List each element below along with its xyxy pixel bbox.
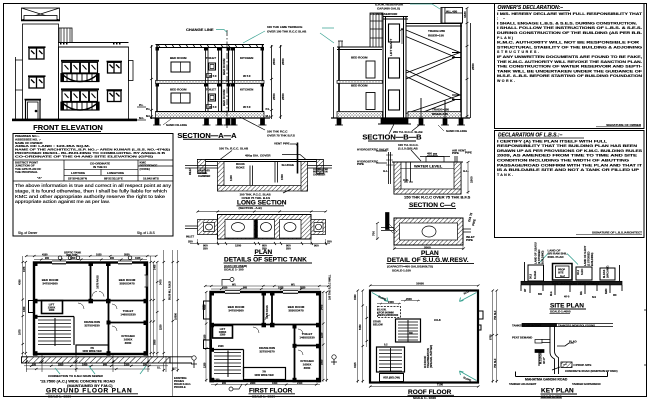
svg-text:BED ROOM: BED ROOM <box>351 84 368 88</box>
svg-text:2950: 2950 <box>58 363 64 366</box>
svg-text:CHAMBER: CHAMBER <box>198 175 210 178</box>
svg-text:CO-ORDINATE OF THE 04 AND SITE: CO-ORDINATE OF THE 04 AND SITE ELEVATION… <box>15 154 153 158</box>
sugw right outlet <box>463 229 471 232</box>
stair chevron upper <box>406 30 460 79</box>
svg-text:IF ANY UNWRITTEN DOCUMENTS ARE: IF ANY UNWRITTEN DOCUMENTS ARE FOUND TO … <box>497 55 642 59</box>
key plan top road band <box>522 324 557 327</box>
svg-text:2000: 2000 <box>424 246 431 250</box>
svg-text:PIPE: PIPE <box>466 238 473 242</box>
svg-text:40': 40' <box>524 288 527 292</box>
svg-text:HYDROSTATIC VALVE: HYDROSTATIC VALVE <box>357 148 389 152</box>
label LONG SECTION <box>237 200 287 211</box>
svg-text:250: 250 <box>286 247 291 251</box>
RF texts <box>354 282 497 387</box>
long section right outlet chamber wall <box>317 160 324 174</box>
svg-text:LAND OF S.ROY: LAND OF S.ROY <box>583 245 587 266</box>
svg-text:stage, it is found otherwise,: stage, it is found otherwise, then I sha… <box>15 188 168 193</box>
key plan side lane <box>542 340 551 343</box>
chains crossing road <box>27 355 167 372</box>
svg-text:2000: 2000 <box>406 297 412 301</box>
svg-text:40.2: 40.2 <box>576 269 580 275</box>
leader 150 slab <box>389 123 422 134</box>
tower window 1 <box>28 47 46 59</box>
svg-text:2000. PLAN: 2000. PLAN <box>548 255 564 259</box>
svg-text:88°21'33.15"E: 88°21'33.15"E <box>104 177 123 181</box>
svg-text:BED ROOM: BED ROOM <box>222 58 226 75</box>
svg-text:30.5: 30.5 <box>529 273 533 279</box>
svg-text:SLUDGE: SLUDGE <box>282 163 295 167</box>
right plinth hatch <box>408 112 461 119</box>
label PLAN septic <box>254 249 273 256</box>
septic plan top dim line <box>198 211 326 213</box>
GF window marks on outer walls <box>52 260 132 263</box>
svg-text:58.7: 58.7 <box>172 369 177 371</box>
svg-text:750 SLF: 750 SLF <box>494 358 497 368</box>
long section tank left wall <box>218 162 225 192</box>
C-C tank walls <box>394 162 461 194</box>
RF right wall tabs <box>478 311 483 319</box>
right dimension lines <box>272 45 281 119</box>
svg-text:5450: 5450 <box>359 324 362 330</box>
label KEY PLAN <box>541 388 578 399</box>
left dim line <box>151 45 153 119</box>
svg-text:700: 700 <box>372 231 376 236</box>
FF extra dim numbers <box>203 287 323 385</box>
right pilaster <box>129 61 134 81</box>
floor2 window band <box>61 89 99 110</box>
key plan prop site rect <box>561 362 572 368</box>
svg-text:900: 900 <box>243 287 248 290</box>
svg-text:TANKERS ADJACENT: TANKERS ADJACENT <box>512 323 542 327</box>
signature of owner <box>596 123 642 127</box>
FF left dim chain <box>205 292 207 382</box>
svg-text:2550: 2550 <box>281 58 285 65</box>
svg-text:1025: 1025 <box>96 254 102 257</box>
section A-A top slab <box>156 45 265 48</box>
lift doors dark <box>389 58 400 78</box>
svg-text:1500: 1500 <box>470 176 474 183</box>
key plan texts <box>509 323 618 386</box>
svg-text:TOILET: TOILET <box>206 56 217 60</box>
label SECTION-A-A <box>177 131 237 140</box>
svg-text:N.S: N.S <box>592 296 596 299</box>
FF door arcs <box>253 315 303 355</box>
svg-text:TANK WILL BE UNDERTAKEN UNDER: TANK WILL BE UNDERTAKEN UNDER THE GUIDAN… <box>497 69 643 73</box>
left doors <box>366 61 375 78</box>
leader vent pipe text <box>290 144 298 147</box>
svg-text:4150: 4150 <box>42 254 48 257</box>
RF ver below box <box>380 374 404 382</box>
site road band <box>521 281 622 285</box>
svg-text:SCALE 1:- 1/100: SCALE 1:- 1/100 <box>48 395 71 399</box>
svg-text:PEAT DEMAND: PEAT DEMAND <box>512 336 532 340</box>
svg-text:THE PROPOSAL: THE PROPOSAL <box>15 170 38 174</box>
svg-text:O.K.: O.K. <box>403 178 409 182</box>
long section tank bottom <box>218 186 308 192</box>
svg-text:O.H.W.RESERVOIR: O.H.W.RESERVOIR <box>370 12 398 16</box>
svg-text:PIPE: PIPE <box>465 151 472 155</box>
tower parapet band <box>24 16 57 21</box>
svg-text:SCALE 1:- 1/100: SCALE 1:- 1/100 <box>252 395 275 399</box>
svg-text:S.RO: S.RO <box>580 269 584 275</box>
svg-text:M.DAS: M.DAS <box>602 269 606 278</box>
svg-text:3500: 3500 <box>154 339 157 345</box>
svg-text:3530X3475: 3530X3475 <box>288 309 304 313</box>
L.B.S. declaration title <box>498 133 584 139</box>
outlet pipe right <box>308 166 333 169</box>
C-C air vent <box>455 156 457 162</box>
RF slope arrows top-right <box>460 293 477 302</box>
RF ghw reservoir dashed box <box>378 307 401 318</box>
svg-text:DN: DN <box>409 332 413 335</box>
B-B left parapet <box>338 41 343 47</box>
svg-text:SITE PLAN: SITE PLAN <box>550 303 584 310</box>
label SECTION-B-B <box>362 133 422 142</box>
key plan black block <box>535 350 544 353</box>
FF column blobs <box>210 291 321 382</box>
svg-text:W.T.F: W.T.F <box>243 105 251 109</box>
first floor plan <box>203 242 648 400</box>
tower parapet X box <box>22 8 60 20</box>
GF left balcony <box>29 301 34 313</box>
key plan leader from prop site <box>552 365 576 370</box>
svg-text:RISER=150: RISER=150 <box>428 34 444 38</box>
svg-text:WATER LEVEL: WATER LEVEL <box>414 164 443 169</box>
parapet vent marks <box>60 43 121 45</box>
svg-text:KMC: KMC <box>605 288 608 294</box>
svg-text:"A": "A" <box>37 176 42 180</box>
GF kerb dim row <box>24 366 168 369</box>
B-B right wall <box>460 24 462 119</box>
svg-text:TRADE=250: TRADE=250 <box>432 108 449 112</box>
svg-text:BELOW: BELOW <box>373 323 383 327</box>
site prop site box <box>553 264 573 281</box>
leader pcc bottom <box>283 189 291 193</box>
svg-text:1075 PASS: 1075 PASS <box>96 275 100 289</box>
RF bottom dim <box>370 386 478 388</box>
svg-text:(CODE): (CODE) <box>140 167 150 171</box>
floor1 window band <box>61 61 99 82</box>
svg-text:COVER: COVER <box>427 154 439 158</box>
window lower bedroom <box>171 93 190 103</box>
svg-text:TAPE UNATUACHA DEVELOPMENT: TAPE UNATUACHA DEVELOPMENT <box>552 281 600 285</box>
svg-text:PIPE: PIPE <box>357 162 364 166</box>
key plan vertical road <box>550 327 559 375</box>
septic plan dim numbers <box>186 235 332 251</box>
RF outer walls <box>370 291 478 383</box>
svg-text:I CERTIFY (A) THE PLAN ITSELF: I CERTIFY (A) THE PLAN ITSELF WITH FULL <box>497 139 608 143</box>
svg-text:Sig. of L.B.S: Sig. of L.B.S <box>137 231 155 235</box>
signature of L.B.S. <box>576 231 642 235</box>
left boundary wall lines <box>15 57 23 120</box>
svg-text:M.L: M.L <box>266 114 271 118</box>
room labels section A-A <box>146 56 271 118</box>
svg-text:PIPE: PIPE <box>452 151 459 155</box>
svg-text:I SHALL FOLLOW THE INSTRUCTION: I SHALL FOLLOW THE INSTRUCTIONS OF L.B.S… <box>497 26 642 30</box>
svg-text:900: 900 <box>314 244 319 248</box>
svg-text:(VACANT): (VACANT) <box>606 266 610 278</box>
toilet door lower marks <box>207 74 212 78</box>
svg-text:RESPONSIBILITY THAT THE BUILDI: RESPONSIBILITY THAT THE BUILDING PLAN HA… <box>497 144 638 148</box>
svg-text:(SPECIAL BATTEN): (SPECIAL BATTEN) <box>430 345 433 368</box>
arrow in shaft <box>401 28 404 44</box>
svg-text:250: 250 <box>203 247 208 251</box>
FF toilet bottom wall <box>295 345 320 347</box>
L.B.S. declaration body text <box>497 139 643 177</box>
svg-text:22°30'45.36"N: 22°30'45.36"N <box>68 177 87 181</box>
label ROOF FLOOR <box>408 389 455 396</box>
septic plan <box>185 211 330 246</box>
svg-text:SCALE-1:100: SCALE-1:100 <box>392 268 411 272</box>
svg-text:P.L: P.L <box>266 107 270 111</box>
svg-text:RISER=150: RISER=150 <box>432 112 448 116</box>
sugw bottom dim <box>394 248 463 250</box>
landing lower <box>452 95 461 100</box>
left dim line <box>333 47 335 118</box>
svg-text:PLAD: PLAD <box>569 340 577 344</box>
roof stair bulkhead with hatch <box>59 28 72 43</box>
svg-text:BED ROOM: BED ROOM <box>351 56 368 60</box>
GF right dim chains <box>151 250 178 396</box>
shaft top slab <box>381 17 408 20</box>
svg-text:900: 900 <box>103 363 108 366</box>
lamp post <box>192 356 196 360</box>
svg-text:250: 250 <box>327 240 332 244</box>
svg-text:IN THE 04: IN THE 04 <box>93 165 107 169</box>
FF bottom dim <box>211 384 320 386</box>
svg-text:4360: 4360 <box>19 279 22 285</box>
svg-text:3500: 3500 <box>125 341 132 345</box>
stair posts <box>421 98 445 118</box>
GF veranda <box>76 345 109 354</box>
svg-text:LATITUDE: LATITUDE <box>71 171 85 175</box>
svg-text:1075 PASS: 1075 PASS <box>265 305 269 319</box>
septic plan left chamber <box>198 220 218 235</box>
svg-text:PASSAGE/ROAD CONFIRM WITH TH: PASSAGE/ROAD CONFIRM WITH THE PLAN AND T… <box>497 163 643 167</box>
svg-text:RD: RD <box>613 294 617 297</box>
leader for lime terrace note <box>243 28 334 43</box>
svg-text:M.L: M.L <box>146 114 151 118</box>
svg-text:K.M.C. AUTHORITY WILL NOT BE R: K.M.C. AUTHORITY WILL NOT BE RESPONSIBLE… <box>497 41 640 45</box>
svg-text:4150: 4150 <box>222 287 228 290</box>
svg-text:G.L.: G.L. <box>383 169 389 173</box>
septic plan cell 3 <box>280 220 302 239</box>
svg-text:I SHALL ENGAGE L.B.S. & S.E.S.: I SHALL ENGAGE L.B.S. & S.E.S. DURING CO… <box>497 21 637 25</box>
svg-text:OVER 75 THK B.F.S: OVER 75 THK B.F.S <box>267 134 295 138</box>
FF right lamp symbol <box>332 355 336 359</box>
svg-text:250: 250 <box>32 363 37 366</box>
label DETAILS OF SEPTIC TANK <box>224 257 313 272</box>
GF room texts <box>19 251 178 354</box>
B-B mid slab left <box>337 81 383 84</box>
svg-text:KITCHEN: KITCHEN <box>240 88 253 92</box>
floor2 small window <box>107 90 123 102</box>
svg-text:3475: 3475 <box>160 279 163 285</box>
inlet pipe left <box>185 166 218 169</box>
site plan <box>521 254 622 296</box>
left dim 700 <box>376 223 378 240</box>
svg-text:The above information is true: The above information is true and correc… <box>15 183 172 188</box>
svg-text:9750: 9750 <box>490 334 493 340</box>
FF window gaps top <box>225 289 298 292</box>
svg-text:3530: 3530 <box>124 254 130 257</box>
svg-text:2009, AS AMENDED FROM TIME TO: 2009, AS AMENDED FROM TIME TO TIME AND S… <box>497 154 638 158</box>
svg-text:7/9: 7/9 <box>262 370 266 374</box>
svg-text:M.L: M.L <box>139 116 144 120</box>
svg-text:SCALE-1:4000: SCALE-1:4000 <box>550 310 571 314</box>
svg-text:3475: 3475 <box>23 266 26 272</box>
svg-text:3475X4360: 3475X4360 <box>42 282 58 286</box>
reservoir box top right <box>441 8 463 24</box>
svg-text:(2 STORIED: (2 STORIED <box>587 251 591 266</box>
section A-A <box>150 28 334 130</box>
svg-text:W.T.F: W.T.F <box>209 74 217 78</box>
svg-text:OVER 100 THK R.C.C SLAB: OVER 100 THK R.C.C SLAB <box>267 30 307 34</box>
sugw plan body <box>394 218 463 245</box>
shaft pit bottom <box>381 118 408 124</box>
svg-text:SAND FILLING: SAND FILLING <box>166 123 188 127</box>
svg-text:1200: 1200 <box>235 244 242 248</box>
right dim line <box>467 8 471 118</box>
svg-text:G+2: G+2 <box>560 275 565 278</box>
svg-text:1200: 1200 <box>70 257 76 260</box>
GF room divider right col <box>108 302 110 354</box>
FF room texts <box>203 274 332 381</box>
svg-text:VER.(BELOW): VER.(BELOW) <box>383 377 400 380</box>
svg-text:STRUCTURAL STABILITY OF THE BU: STRUCTURAL STABILITY OF THE BUILDING & A… <box>497 45 642 49</box>
svg-text:PROFILE: PROFILE <box>174 385 186 389</box>
svg-text:I M/S. HEREBY DECLARE WITH FUL: I M/S. HEREBY DECLARE WITH FULL RESPONSI… <box>497 12 643 16</box>
FF balconies left <box>204 301 211 319</box>
section A-A beam blobs <box>156 48 265 87</box>
roof floor plan <box>357 285 499 388</box>
change line (chain) <box>226 30 228 130</box>
GF lift box <box>42 301 63 314</box>
svg-text:3530X3475: 3530X3475 <box>119 282 135 286</box>
RF right dim chains <box>493 291 497 384</box>
svg-text:3475X4360: 3475X4360 <box>228 309 244 313</box>
svg-text:2100: 2100 <box>218 345 224 348</box>
septic plan main hatched body <box>218 215 312 240</box>
svg-text:4415: 4415 <box>354 362 357 368</box>
svg-text:0.2: 0.2 <box>384 344 388 347</box>
svg-text:1025: 1025 <box>135 257 141 260</box>
svg-text:3275X4330: 3275X4330 <box>84 324 100 328</box>
footings <box>155 118 265 125</box>
svg-text:G.L: G.L <box>157 368 161 370</box>
svg-text:250 TH. R.C.C. SLAB: 250 TH. R.C.C. SLAB <box>393 130 423 134</box>
shaft machine room stack left <box>370 13 383 47</box>
right dim C-C <box>467 162 469 194</box>
septic plan inlet line <box>185 226 198 229</box>
svg-text:W1: W1 <box>232 284 236 287</box>
svg-text:2550: 2550 <box>471 63 475 70</box>
label PLAN sugw <box>421 250 440 257</box>
svg-text:CHANGE LINE: CHANGE LINE <box>186 27 214 32</box>
pipes inside C-C <box>406 162 411 182</box>
svg-text:2550: 2550 <box>272 93 276 100</box>
svg-text:3275X4370: 3275X4370 <box>259 350 275 354</box>
svg-text:450φ DIA. COVER: 450φ DIA. COVER <box>245 154 271 158</box>
leader rcc slab <box>220 151 232 160</box>
svg-text:150 THK R.C.C OVER 75 THK B.F.: 150 THK R.C.C OVER 75 THK B.F.S <box>404 195 471 200</box>
FF lift box <box>213 326 233 339</box>
svg-text:3500: 3500 <box>304 366 311 370</box>
svg-text:TANK.: TANK. <box>497 173 513 177</box>
svg-text:1000 WIDE VER: 1000 WIDE VER <box>82 349 101 353</box>
leader 450 cover <box>282 155 306 160</box>
B-B footings <box>337 118 463 125</box>
RF left dim chains <box>358 291 367 384</box>
L.B.S. declaration panel box <box>495 131 645 238</box>
front elevation stair tower body <box>23 24 59 120</box>
GF outer walls <box>34 263 147 355</box>
FF stair walls <box>212 350 244 378</box>
svg-text:750 SLF: 750 SLF <box>494 310 497 320</box>
svg-text:1500: 1500 <box>280 174 284 180</box>
svg-text:INLET: INLET <box>188 167 192 175</box>
svg-text:40'-0: 40'-0 <box>564 296 570 299</box>
svg-text:DURING CONSTRUCTION OF THE BUI: DURING CONSTRUCTION OF THE BUILDING (AS … <box>497 31 642 35</box>
GF column blobs <box>33 262 148 356</box>
front elevation ground line <box>12 119 137 122</box>
svg-text:W1: W1 <box>291 284 295 287</box>
svg-text:7150: 7150 <box>437 383 444 387</box>
svg-text:CONNECTION TO K.M.C MAIN SEWER: CONNECTION TO K.M.C MAIN SEWER <box>48 374 104 378</box>
right frame tick marks <box>644 310 647 365</box>
label FRONT ELEVATION <box>33 123 103 132</box>
septic plan cell 1 <box>225 220 254 239</box>
GF septic tank below circles <box>58 256 62 260</box>
svg-text:10500: 10500 <box>175 312 178 320</box>
B-B floor slab left <box>337 112 383 119</box>
GF toilet bottom wall <box>109 322 148 324</box>
svg-text:KMC and other appropriate auth: KMC and other appropriate authority rese… <box>15 194 166 199</box>
svg-text:BED ROOM: BED ROOM <box>170 88 187 92</box>
sugw plan ellipse <box>422 226 436 237</box>
toilet windows <box>209 63 216 70</box>
svg-text:100 THK LIME TERRACE: 100 THK LIME TERRACE <box>267 25 302 29</box>
GF left dim chains <box>23 256 26 360</box>
RF top dim <box>370 285 478 287</box>
svg-text:RD.: RD. <box>580 291 583 295</box>
long section left inlet chamber wall <box>198 160 206 174</box>
info paragraph <box>15 183 172 204</box>
svg-text:P.L: P.L <box>146 107 150 111</box>
leader for pcc note <box>240 117 265 130</box>
svg-text:TANKER ADJACENT: TANKER ADJACENT <box>509 382 537 386</box>
svg-text:IS A BUILDABLE SITE AND NOT A: IS A BUILDABLE SITE AND NOT A TANK OR FI… <box>497 168 640 172</box>
svg-text:THE K.M.C. AUTHORITY WILL REVO: THE K.M.C. AUTHORITY WILL REVOKE THE SAN… <box>497 60 642 64</box>
svg-text:1000 WIDE VER: 1000 WIDE VER <box>254 373 273 377</box>
svg-text:RESV.)2000X400: RESV.)2000X400 <box>378 313 399 317</box>
svg-text:BUILDING): BUILDING) <box>541 250 545 264</box>
leaders left texts <box>376 151 387 163</box>
svg-text:1465: 1465 <box>154 264 157 270</box>
svg-text:1200: 1200 <box>214 379 220 382</box>
GF stair treads <box>38 320 71 345</box>
section A-A mid slab <box>156 81 265 84</box>
svg-text:BUILDING): BUILDING) <box>590 252 594 266</box>
svg-text:100 Th. R.C.C. SLAB: 100 Th. R.C.C. SLAB <box>219 147 249 151</box>
RF stair upper box <box>396 319 421 342</box>
site plot box 4 <box>600 268 615 280</box>
svg-text:THE CONSTRUCTION OF WATER RESE: THE CONSTRUCTION OF WATER RESERVOIR AND … <box>497 65 643 69</box>
GF top-room bottom wall <box>36 300 148 302</box>
svg-text:G.L.: G.L. <box>463 169 469 173</box>
C-C cover box on top <box>426 157 444 163</box>
section A-A ground line <box>150 117 270 119</box>
